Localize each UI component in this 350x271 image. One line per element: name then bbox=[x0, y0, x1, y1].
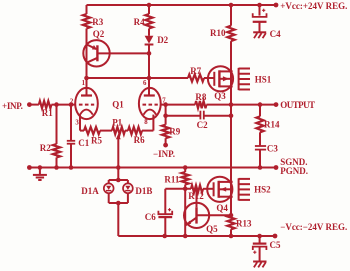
svg-text:C2: C2 bbox=[197, 120, 208, 130]
svg-text:8: 8 bbox=[144, 119, 148, 126]
svg-text:R13: R13 bbox=[236, 219, 252, 229]
svg-text:Q2: Q2 bbox=[93, 29, 105, 39]
svg-text:R7: R7 bbox=[190, 66, 201, 76]
svg-text:C4: C4 bbox=[270, 29, 281, 39]
svg-text:D1B: D1B bbox=[135, 186, 152, 196]
svg-text:2: 2 bbox=[70, 98, 74, 105]
svg-text:D2: D2 bbox=[157, 35, 168, 45]
svg-text:R4: R4 bbox=[134, 17, 145, 27]
svg-text:R2: R2 bbox=[40, 143, 51, 153]
svg-text:−Vcc:−24V REG.: −Vcc:−24V REG. bbox=[280, 222, 347, 232]
svg-text:C6: C6 bbox=[145, 212, 156, 222]
svg-text:R14: R14 bbox=[264, 119, 280, 129]
svg-text:Q1: Q1 bbox=[112, 100, 124, 110]
svg-text:7: 7 bbox=[162, 98, 166, 105]
svg-text:R12: R12 bbox=[188, 191, 204, 201]
svg-text:+INP.: +INP. bbox=[2, 101, 23, 111]
svg-text:OUTPUT: OUTPUT bbox=[280, 100, 315, 110]
svg-text:Q3: Q3 bbox=[214, 91, 226, 101]
svg-text:P1: P1 bbox=[112, 117, 122, 127]
svg-text:R8: R8 bbox=[195, 92, 206, 102]
svg-text:PGND.: PGND. bbox=[280, 166, 308, 176]
svg-text:R11: R11 bbox=[164, 174, 180, 184]
svg-text:HS2: HS2 bbox=[254, 185, 271, 195]
svg-text:HS1: HS1 bbox=[255, 75, 272, 85]
svg-text:R6: R6 bbox=[134, 135, 145, 145]
svg-text:R10: R10 bbox=[210, 28, 226, 38]
svg-text:+Vcc:+24V REG.: +Vcc:+24V REG. bbox=[280, 1, 347, 11]
svg-text:C5: C5 bbox=[270, 240, 281, 250]
svg-text:1: 1 bbox=[82, 80, 86, 87]
svg-text:C3: C3 bbox=[267, 144, 278, 154]
svg-text:R3: R3 bbox=[92, 17, 103, 27]
svg-text:Q4: Q4 bbox=[216, 203, 228, 213]
svg-text:R9: R9 bbox=[169, 127, 180, 137]
svg-text:6: 6 bbox=[143, 80, 147, 87]
svg-text:−INP.: −INP. bbox=[153, 149, 175, 159]
svg-text:R5: R5 bbox=[91, 135, 102, 145]
svg-text:D1A: D1A bbox=[81, 186, 99, 196]
svg-text:3: 3 bbox=[75, 120, 79, 127]
svg-text:C1: C1 bbox=[78, 138, 89, 148]
svg-text:Q5: Q5 bbox=[206, 224, 218, 234]
svg-text:R1: R1 bbox=[42, 108, 53, 118]
